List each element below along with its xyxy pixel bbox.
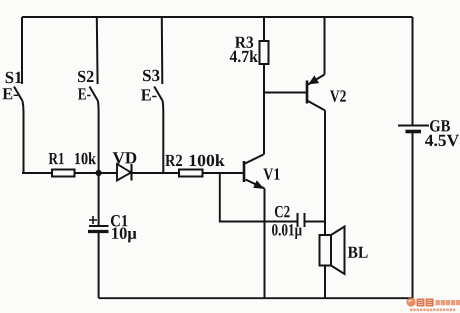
wire: C2 right plate to V2 collector line <box>306 221 326 223</box>
wire: bottom return bus <box>99 297 413 299</box>
wire: top bus to R3 <box>263 17 265 41</box>
wire: tap from base line down and right to C2 <box>220 173 297 222</box>
battery negative plate (short thick) <box>406 130 422 134</box>
label C1 value 10u <box>112 228 136 243</box>
wire: R3/V1-collector node to V2 base <box>264 92 306 94</box>
wire: V2 collector down to speaker <box>324 111 326 236</box>
watermark logo (bottom-right, decorative site mark) <box>406 297 460 309</box>
label + polarity mark <box>89 216 97 224</box>
resistor R1 <box>49 152 96 176</box>
label C2 <box>275 206 290 218</box>
label BL <box>348 247 368 258</box>
switch S1 <box>3 17 24 173</box>
speaker BL <box>320 227 368 299</box>
label V1 <box>263 168 279 180</box>
transistor V2 (PNP) <box>307 17 346 235</box>
switch S2 <box>78 17 99 173</box>
label C1 <box>111 215 128 227</box>
V1 collector lead <box>245 155 264 164</box>
wire: speaker to bottom bus <box>324 266 326 299</box>
V1 base bar <box>243 161 246 182</box>
wire: V1 emitter to bottom bus <box>264 189 266 299</box>
switch S3 <box>141 17 163 173</box>
capacitor C2 <box>272 206 325 239</box>
label GB value 4.5V <box>425 135 459 147</box>
label R3 value 4.7k <box>230 50 258 62</box>
resistor R2 <box>165 154 224 176</box>
wire: horizontal base line through R1, VD, R2 <box>22 172 243 174</box>
label GB <box>430 120 450 132</box>
battery positive plate (long) <box>398 125 429 127</box>
label E- actuator of S2 <box>78 88 91 99</box>
label E- actuator of S1 <box>3 88 19 99</box>
battery GB <box>398 17 459 299</box>
node: junction of R1, VD anode, S2 and C1 <box>96 170 102 176</box>
label VD <box>113 152 137 163</box>
wire: C1 bottom plate to bottom bus <box>98 232 100 299</box>
wire: V2 emitter to top bus <box>324 17 326 75</box>
label E- actuator of S3 <box>141 89 157 100</box>
V1 emitter arrow <box>254 181 263 188</box>
label R2 value 100k <box>190 154 225 166</box>
wire: battery negative to bottom bus <box>412 133 414 299</box>
label V2 <box>330 90 346 102</box>
resistor R3 <box>230 17 269 155</box>
label R2 <box>165 155 182 166</box>
wire: R3 to V2 base node and V1 collector <box>263 64 265 155</box>
label S1 <box>6 72 22 84</box>
label R3 <box>235 37 253 49</box>
C1 positive plate <box>89 225 109 227</box>
V2 collector lead <box>308 101 325 111</box>
V2 emitter lead <box>308 75 325 85</box>
diode VD <box>113 152 137 180</box>
V1 emitter lead <box>246 180 265 189</box>
label S3 <box>143 70 160 82</box>
label R1 <box>49 153 64 164</box>
V2 base bar <box>306 81 309 104</box>
label C2 value 0.01u <box>272 224 302 239</box>
C1 negative plate <box>88 230 109 233</box>
V2 emitter arrow <box>309 76 318 84</box>
label S2 <box>78 71 94 83</box>
capacitor C1 (polarized electrolytic) <box>88 173 137 298</box>
wire: node to C1 top plate <box>98 173 100 226</box>
transistor V1 (NPN) <box>244 155 280 299</box>
wire: top supply bus <box>22 16 413 18</box>
label R1 value 10k <box>75 152 96 164</box>
wire: top bus to battery positive <box>412 17 414 125</box>
